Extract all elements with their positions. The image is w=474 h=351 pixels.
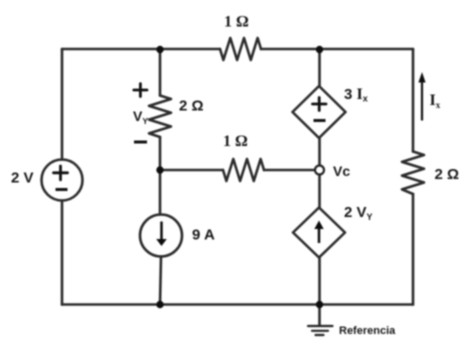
current source I1 9A circle xyxy=(140,215,182,257)
svg-text:VY: VY xyxy=(133,108,148,126)
wire left lower xyxy=(61,201,64,305)
wire ground stub xyxy=(318,305,321,326)
wire diamond1 to Vc xyxy=(318,138,321,166)
resistor R2 2ohm left zigzag xyxy=(149,96,171,138)
Ix current arrow xyxy=(418,72,425,121)
svg-text:2 V: 2 V xyxy=(11,170,34,187)
svg-text:9 A: 9 A xyxy=(192,227,215,244)
wire middle right xyxy=(264,169,315,172)
junction dot node A xyxy=(156,46,163,53)
wire Vc to diamond2 xyxy=(318,175,321,208)
svg-text:Ix: Ix xyxy=(430,92,441,110)
wire right upper xyxy=(412,49,415,152)
ground symbol xyxy=(308,326,333,335)
junction dot node C xyxy=(156,166,163,173)
plus sign outside R2 (Vy polarity) xyxy=(134,84,147,97)
svg-text:2 Ω: 2 Ω xyxy=(435,166,460,183)
wire branch2 middle xyxy=(159,137,162,215)
voltage source V1 2V circle xyxy=(42,160,83,201)
wire left upper xyxy=(61,49,64,160)
wire middle left xyxy=(160,169,223,172)
svg-text:1 Ω: 1 Ω xyxy=(223,133,248,150)
svg-text:2 Ω: 2 Ω xyxy=(179,98,204,115)
node Vc open circle xyxy=(315,166,324,175)
svg-text:Referencia: Referencia xyxy=(339,325,396,337)
wire branch2 bottom xyxy=(160,257,161,305)
wire branch2 top xyxy=(159,49,162,96)
minus sign outside R2 (Vy polarity) xyxy=(134,141,147,144)
wire branch3 top xyxy=(318,49,321,86)
svg-text:3 Ix: 3 Ix xyxy=(344,86,368,104)
junction dot node D xyxy=(156,301,163,308)
resistor R4 2ohm right zigzag xyxy=(402,152,424,195)
wire top-right segment xyxy=(261,48,413,51)
wire top-left segment xyxy=(62,48,220,51)
wire right lower xyxy=(412,194,415,305)
svg-text:Vc: Vc xyxy=(333,163,350,179)
plus sign inside 2V source xyxy=(54,166,68,180)
resistor R3 1ohm middle zigzag xyxy=(223,159,264,181)
minus sign inside 3Ix diamond xyxy=(314,119,326,122)
arrow inside 2Vy diamond xyxy=(314,221,323,244)
junction dot node E xyxy=(316,301,323,308)
wire bottom xyxy=(62,303,413,306)
plus sign inside 3Ix diamond xyxy=(313,98,327,111)
minus sign inside 2V source xyxy=(56,188,68,191)
arrow inside 9A source xyxy=(156,222,167,247)
svg-text:2 VY: 2 VY xyxy=(344,204,373,222)
resistor R1 1ohm top zigzag xyxy=(220,38,261,60)
junction dot node B xyxy=(316,46,323,53)
dependent source F1 2Vy diamond xyxy=(293,208,345,258)
svg-text:1 Ω: 1 Ω xyxy=(224,14,249,31)
wire branch3 bottom xyxy=(318,258,321,305)
dependent source E1 3Ix diamond xyxy=(293,86,346,138)
